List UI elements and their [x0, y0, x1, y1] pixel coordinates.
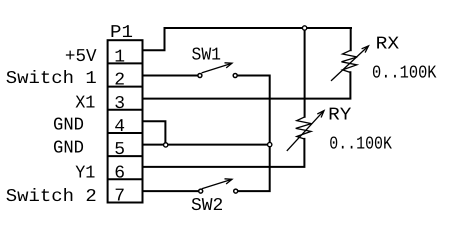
- wire pin2 to SW1: [143, 75, 197, 77]
- svg-text:SW2: SW2: [191, 196, 223, 216]
- switch SW2 arm: [202, 179, 232, 189]
- svg-text:6: 6: [114, 163, 125, 183]
- wire RY bottom to Y1 pin6: [143, 139, 304, 167]
- switch SW2 contact right: [234, 189, 238, 193]
- wire pin7 to SW2: [143, 190, 198, 192]
- svg-text:RY: RY: [328, 106, 351, 126]
- svg-text:GND: GND: [53, 115, 84, 135]
- svg-text:P1: P1: [110, 23, 133, 43]
- potentiometer RX zigzag: [342, 50, 358, 72]
- junction +5V to RY: [302, 26, 306, 30]
- potentiometer RX wiper arrow: [331, 46, 369, 81]
- svg-text:X1: X1: [75, 93, 95, 113]
- svg-text:GND: GND: [53, 139, 84, 159]
- wire pin1 to +5V top rail: [143, 28, 351, 50]
- junction GND pin4 riser: [164, 143, 168, 147]
- wire RX bottom to X1 pin3: [143, 72, 350, 98]
- svg-text:+5V: +5V: [65, 47, 97, 67]
- svg-text:1: 1: [114, 48, 125, 68]
- svg-text:SW1: SW1: [192, 45, 222, 65]
- svg-text:Switch 1: Switch 1: [6, 69, 97, 89]
- svg-text:Switch 2: Switch 2: [6, 187, 97, 207]
- connector P1 box: [108, 40, 143, 202]
- wire pin5 GND line: [143, 144, 270, 146]
- svg-text:0..100K: 0..100K: [372, 64, 437, 84]
- svg-text:2: 2: [114, 71, 125, 91]
- wire SW1 out down to SW2 out: [238, 76, 270, 192]
- switch SW1 arm: [202, 63, 232, 73]
- potentiometer RY zigzag: [296, 117, 312, 139]
- svg-text:RX: RX: [376, 35, 400, 55]
- svg-text:0..100K: 0..100K: [329, 135, 392, 155]
- svg-text:Y1: Y1: [75, 163, 95, 183]
- switch SW1 contact left: [198, 74, 202, 78]
- switch SW1 contact right: [233, 74, 237, 78]
- svg-text:4: 4: [114, 117, 125, 137]
- svg-text:5: 5: [114, 140, 125, 160]
- svg-text:3: 3: [114, 94, 125, 114]
- wire pin4 GND riser: [143, 121, 165, 144]
- svg-text:7: 7: [114, 187, 125, 207]
- wire RX top stub: [350, 28, 352, 50]
- switch SW2 contact left: [199, 189, 203, 193]
- wire RY feed from +5V junction: [304, 28, 306, 117]
- junction GND to switch return: [268, 142, 272, 146]
- potentiometer RY wiper arrow: [287, 111, 324, 151]
